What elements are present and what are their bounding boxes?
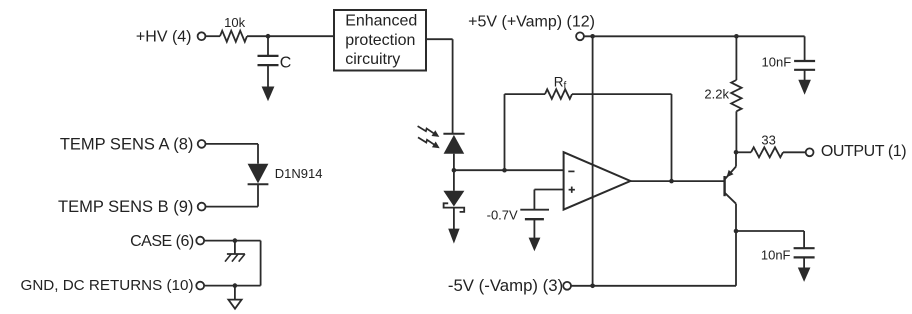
svg-text:circuitry: circuitry xyxy=(345,51,400,68)
svg-text:CASE (6): CASE (6) xyxy=(130,233,194,250)
svg-text:TEMP SENS B (9): TEMP SENS B (9) xyxy=(58,198,193,216)
svg-text:GND, DC RETURNS (10): GND, DC RETURNS (10) xyxy=(21,277,194,294)
svg-text:TEMP SENS A (8): TEMP SENS A (8) xyxy=(60,136,194,154)
svg-text:OUTPUT (1): OUTPUT (1) xyxy=(821,143,906,160)
svg-text:+HV (4): +HV (4) xyxy=(136,28,192,45)
svg-text:10nF: 10nF xyxy=(762,54,792,69)
svg-text:33: 33 xyxy=(761,132,775,147)
svg-text:-0.7V: -0.7V xyxy=(487,207,518,222)
svg-text:10nF: 10nF xyxy=(761,247,791,262)
svg-text:2.2k: 2.2k xyxy=(704,86,729,101)
svg-text:C: C xyxy=(280,55,292,72)
svg-text:+5V (+Vamp) (12): +5V (+Vamp) (12) xyxy=(468,13,595,30)
svg-text:Enhanced: Enhanced xyxy=(345,13,417,30)
svg-text:protection: protection xyxy=(345,32,415,49)
svg-text:10k: 10k xyxy=(224,15,245,30)
svg-text:D1N914: D1N914 xyxy=(275,166,323,181)
svg-text:-5V (-Vamp) (3): -5V (-Vamp) (3) xyxy=(448,276,563,295)
